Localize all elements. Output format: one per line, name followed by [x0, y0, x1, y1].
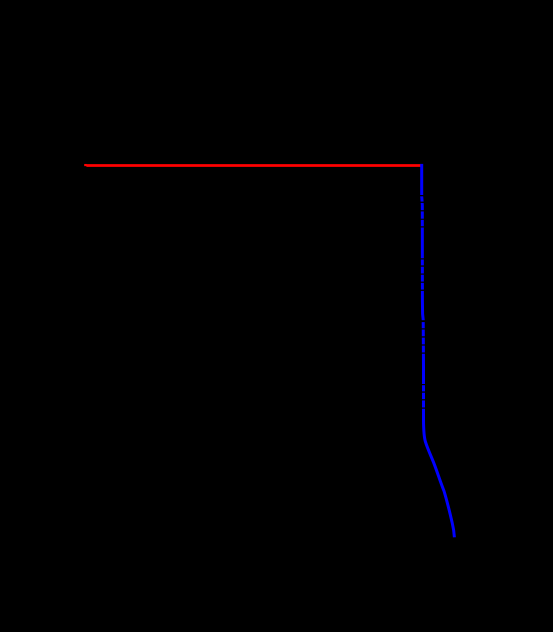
red series start stub	[84, 164, 87, 166]
dash gaps band 3	[421, 320, 427, 354]
dash gaps band 2	[420, 258, 426, 291]
blue series line	[422, 164, 455, 537]
dash gaps band 4	[421, 384, 427, 409]
red series line	[86, 164, 422, 167]
dash gaps band 1	[420, 195, 426, 228]
